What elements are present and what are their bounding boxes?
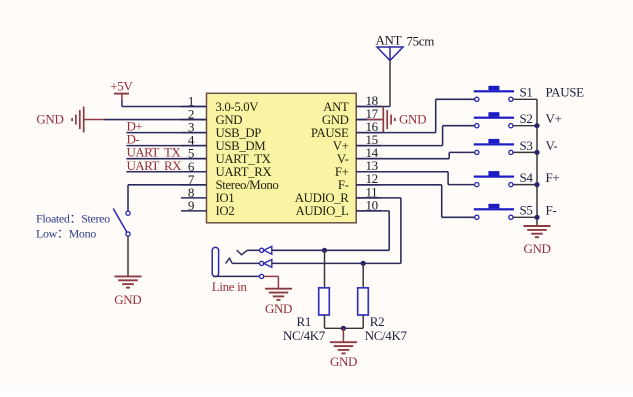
svg-text:+5V: +5V xyxy=(110,79,133,94)
svg-text:V+: V+ xyxy=(333,139,349,153)
svg-text:F+: F+ xyxy=(335,165,349,179)
svg-text:3.0-5.0V: 3.0-5.0V xyxy=(216,100,260,114)
svg-text:S1: S1 xyxy=(520,85,533,100)
svg-text:GND: GND xyxy=(36,112,63,127)
svg-text:V+: V+ xyxy=(546,111,562,126)
svg-text:F-: F- xyxy=(546,203,557,218)
svg-text:UART_TX: UART_TX xyxy=(216,152,272,166)
svg-text:9: 9 xyxy=(188,198,194,213)
svg-text:S3: S3 xyxy=(520,138,533,153)
svg-text:S4: S4 xyxy=(520,170,534,185)
svg-text:UART RX: UART RX xyxy=(127,158,183,173)
svg-text:PAUSE: PAUSE xyxy=(546,85,585,100)
svg-text:AUDIO_R: AUDIO_R xyxy=(295,191,350,205)
svg-text:ANT: ANT xyxy=(376,33,402,48)
svg-text:PAUSE: PAUSE xyxy=(311,126,349,140)
svg-text:GND: GND xyxy=(216,113,243,127)
svg-text:AUDIO_L: AUDIO_L xyxy=(296,204,350,218)
svg-text:V-: V- xyxy=(337,152,349,166)
svg-text:IO1: IO1 xyxy=(216,191,235,205)
svg-text:S5: S5 xyxy=(520,203,533,218)
svg-text:V-: V- xyxy=(546,138,558,153)
svg-text:USB_DP: USB_DP xyxy=(216,126,262,140)
svg-text:NC/4K7: NC/4K7 xyxy=(283,328,326,343)
svg-text:GND: GND xyxy=(330,354,357,369)
svg-text:NC/4K7: NC/4K7 xyxy=(365,328,408,343)
svg-text:GND: GND xyxy=(265,301,292,316)
svg-text:Line in: Line in xyxy=(212,279,248,294)
svg-text:F+: F+ xyxy=(546,170,560,185)
svg-text:IO2: IO2 xyxy=(216,204,235,218)
svg-text:ANT: ANT xyxy=(323,100,349,114)
svg-text:Low：Mono: Low：Mono xyxy=(36,227,96,241)
svg-text:GND: GND xyxy=(322,113,349,127)
svg-text:Floated：Stereo: Floated：Stereo xyxy=(36,211,110,225)
svg-text:F-: F- xyxy=(338,178,349,192)
svg-text:UART_RX: UART_RX xyxy=(216,165,273,179)
svg-text:USB_DM: USB_DM xyxy=(216,139,266,153)
svg-text:GND: GND xyxy=(114,292,141,307)
svg-text:Stereo/Mono: Stereo/Mono xyxy=(216,178,279,192)
svg-text:GND: GND xyxy=(399,112,426,127)
svg-text:GND: GND xyxy=(523,241,550,256)
svg-text:10: 10 xyxy=(366,197,378,212)
svg-text:75cm: 75cm xyxy=(407,33,435,48)
svg-text:S2: S2 xyxy=(520,111,533,126)
